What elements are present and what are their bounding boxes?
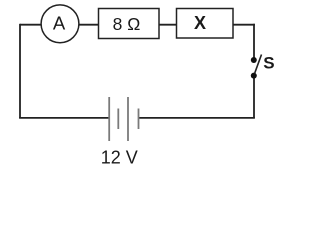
svg-text:A: A — [53, 13, 66, 34]
svg-text:X: X — [194, 13, 206, 33]
svg-text:8 Ω: 8 Ω — [113, 14, 141, 34]
svg-text:12 V: 12 V — [101, 147, 138, 167]
svg-text:S: S — [263, 54, 274, 73]
